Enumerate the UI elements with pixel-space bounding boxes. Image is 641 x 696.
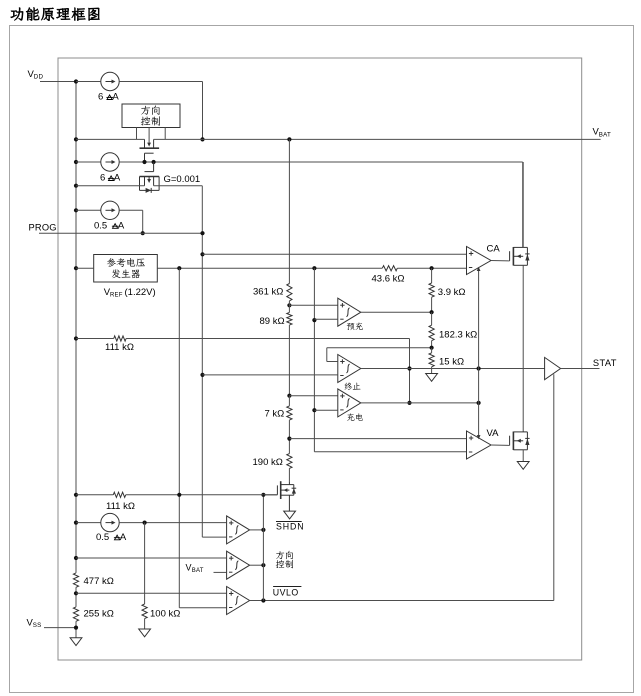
wire source rail left xyxy=(74,184,78,188)
wire Q5 gate xyxy=(264,494,278,496)
ground bus bottom xyxy=(70,638,82,646)
wire U3 output xyxy=(361,311,432,313)
transistor Q4 VA output FET xyxy=(509,436,511,446)
resistor R2 89k xyxy=(288,301,290,313)
resistor R11 477k on bus xyxy=(73,573,78,587)
svg-text:361 kΩ: 361 kΩ xyxy=(253,286,283,297)
wire U4 minus xyxy=(200,373,204,377)
block 方向控制 direction control xyxy=(122,104,180,128)
resistor R5 111k xyxy=(74,336,78,340)
transistor Q2 sense FET xyxy=(153,162,155,172)
wire ref left xyxy=(74,266,78,270)
wire I1 output xyxy=(119,81,202,83)
node charge plus xyxy=(287,394,291,398)
svg-text:A: A xyxy=(118,220,125,231)
op-amp U1 CA xyxy=(467,247,492,275)
resistor R8 190k xyxy=(287,454,292,469)
wire CA plus line xyxy=(200,252,204,256)
svg-text:BAT: BAT xyxy=(599,131,611,138)
wire comparator output bus xyxy=(262,495,264,601)
comparator U6 shutdown xyxy=(227,516,250,544)
wire U7 plus xyxy=(74,556,78,560)
wire to CA minus xyxy=(397,267,466,269)
resistor R9 15k xyxy=(431,348,433,353)
svg-text:(1.22V): (1.22V) xyxy=(125,287,156,298)
wire 111k down xyxy=(409,339,411,403)
comparator U8 UVLO xyxy=(227,587,250,615)
svg-text:100 kΩ: 100 kΩ xyxy=(150,608,180,619)
comparator U7 direction xyxy=(227,551,250,579)
resistor R4 3.9k xyxy=(431,268,433,283)
svg-text:477 kΩ: 477 kΩ xyxy=(84,576,114,587)
svg-text:G=0.001: G=0.001 xyxy=(164,174,201,185)
svg-text:CA: CA xyxy=(487,244,501,255)
svg-text:111 kΩ: 111 kΩ xyxy=(106,501,135,512)
svg-text:43.6 kΩ: 43.6 kΩ xyxy=(372,273,405,284)
wire UVLO to buffer xyxy=(553,374,555,600)
wire U8 out xyxy=(250,600,264,602)
svg-text:111 kΩ: 111 kΩ xyxy=(105,342,134,353)
wire U6 out xyxy=(250,529,264,531)
resistor R10 111k xyxy=(74,493,78,497)
wire box legs xyxy=(136,128,138,140)
svg-text:89 kΩ: 89 kΩ xyxy=(260,316,285,327)
wire VREF minus bus xyxy=(313,268,315,452)
resistor R12 255k on bus xyxy=(73,607,78,621)
wire VREF branch xyxy=(178,268,180,608)
wire gate line right xyxy=(119,161,523,163)
svg-text:190 kΩ: 190 kΩ xyxy=(253,457,283,468)
wire I3 output xyxy=(119,209,143,211)
wire Q3 rail xyxy=(522,162,524,247)
comparator U5 充电 charge xyxy=(338,389,361,417)
node VA plus tap xyxy=(287,437,291,441)
wire U8 plus xyxy=(74,591,78,595)
svg-text:0.5: 0.5 xyxy=(94,220,107,231)
svg-text:0.5: 0.5 xyxy=(96,532,109,543)
svg-text:BAT: BAT xyxy=(192,568,204,574)
svg-text:255 kΩ: 255 kΩ xyxy=(84,608,114,619)
svg-text:6: 6 xyxy=(98,92,103,103)
chip boundary box xyxy=(58,58,582,660)
wire gate line xyxy=(74,160,78,164)
label U6 SHDN out xyxy=(273,586,301,588)
wire gate drive arrow into Q1 xyxy=(148,128,150,144)
current source I2 6uA xyxy=(101,153,119,171)
svg-text:6: 6 xyxy=(100,173,105,184)
svg-text:SS: SS xyxy=(33,622,42,629)
wire 190k to Q5 xyxy=(288,468,290,481)
current source I3 0.5uA xyxy=(74,208,78,212)
wire VBAT rail right xyxy=(154,138,601,140)
title 功能原理框图 xyxy=(11,8,23,21)
wire U4 plus feedback xyxy=(327,361,338,363)
ground below Q5 xyxy=(284,511,296,519)
resistor R7 7k xyxy=(288,396,290,406)
current source I4 0.5uA xyxy=(74,521,78,525)
node CA drive xyxy=(431,297,433,312)
resistor R3 43.6k xyxy=(382,266,397,271)
wire bus xyxy=(75,587,77,607)
wire U7 out xyxy=(250,564,264,566)
resistor R1 361k xyxy=(287,284,292,301)
current source I1 6uA xyxy=(74,137,78,141)
svg-text:V: V xyxy=(186,563,192,573)
ground below 15k xyxy=(426,374,438,382)
wire control line CA-VA xyxy=(478,270,480,437)
wire CA out xyxy=(491,260,510,262)
node STAT pin xyxy=(561,368,600,370)
wire Q4 to ground xyxy=(522,450,524,462)
svg-text:DD: DD xyxy=(34,74,44,81)
wire source rail right xyxy=(154,185,203,187)
wire U5 output xyxy=(361,402,479,404)
svg-text:7 kΩ: 7 kΩ xyxy=(265,409,285,420)
wire VDD bus vertical xyxy=(75,82,77,573)
svg-text:A: A xyxy=(112,92,119,103)
ground below Q4 xyxy=(517,462,529,470)
wire 100k ground xyxy=(144,619,146,629)
resistor R13 100k xyxy=(144,523,146,604)
svg-text:REF: REF xyxy=(110,293,123,299)
comparator U3 预充 precharge xyxy=(338,298,361,326)
resistor R6 182.3k xyxy=(431,312,433,325)
wire divider down xyxy=(288,325,290,396)
wire 15k to ground xyxy=(431,367,433,374)
wire U6 plus xyxy=(119,522,226,524)
buffer U9 STAT xyxy=(545,357,561,379)
svg-text:3.9 kΩ: 3.9 kΩ xyxy=(438,287,466,298)
label SHDN xyxy=(276,520,302,522)
ground below 100k xyxy=(139,629,151,637)
svg-text:A: A xyxy=(120,532,127,543)
wire bus to ground xyxy=(75,621,77,638)
wire U6 minus xyxy=(202,536,226,538)
wire ref output xyxy=(157,267,382,269)
transistor Q3 CA output FET xyxy=(509,251,511,261)
wire 7k to 190k xyxy=(288,420,290,454)
block 参考电压发生器 reference generator xyxy=(94,255,158,283)
node divider A xyxy=(287,303,291,307)
wire U3 minus xyxy=(314,318,337,320)
svg-text:STAT: STAT xyxy=(593,358,617,368)
svg-text:182.3 kΩ: 182.3 kΩ xyxy=(439,329,477,340)
transistor Q1 pass FET xyxy=(144,139,146,148)
label 方向控制 comparator xyxy=(276,551,284,559)
transistor Q5 SHDN FET xyxy=(288,482,290,485)
svg-text:A: A xyxy=(114,173,121,184)
wire VBAT rail left xyxy=(76,138,145,140)
node feedback tap xyxy=(431,341,433,348)
svg-text:SHDN: SHDN xyxy=(276,522,305,532)
wire U4 output to STAT xyxy=(361,368,545,370)
svg-text:UVLO: UVLO xyxy=(273,587,299,597)
svg-text:VA: VA xyxy=(487,428,500,439)
op-amp U2 VA xyxy=(467,431,492,459)
wire VA out xyxy=(491,444,510,446)
svg-text:15 kΩ: 15 kΩ xyxy=(439,356,464,367)
wire U5 minus xyxy=(314,409,337,411)
wire 361k top xyxy=(287,137,291,141)
svg-text:PROG: PROG xyxy=(29,223,57,233)
comparator U4 终止 terminate xyxy=(338,355,361,383)
